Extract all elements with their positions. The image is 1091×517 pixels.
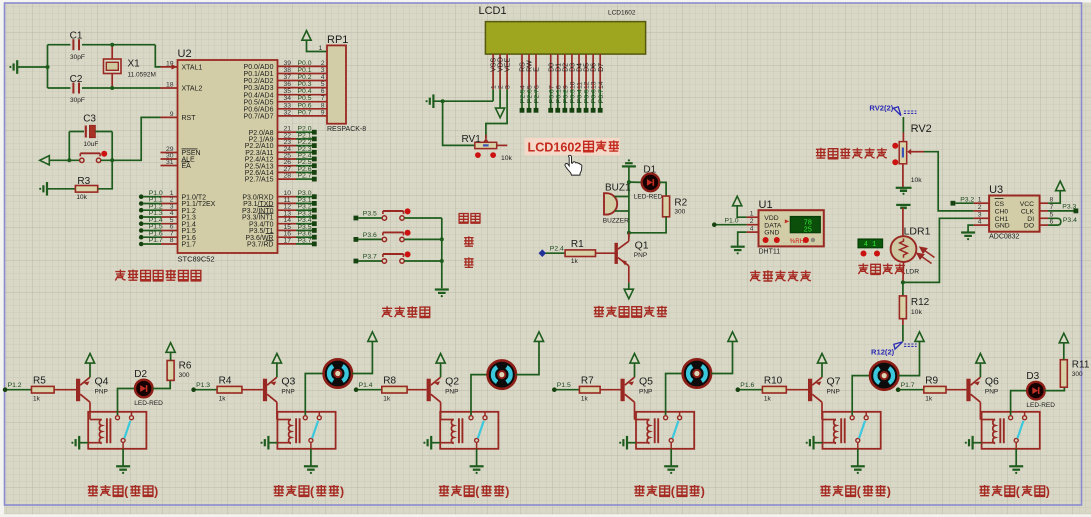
node P1.6 xyxy=(736,387,741,392)
svg-text:7: 7 xyxy=(548,85,555,89)
wire buzzer bottom xyxy=(615,210,629,212)
wire relay to led xyxy=(118,389,136,416)
svg-text:30pF: 30pF xyxy=(70,54,85,61)
wire common xyxy=(310,442,312,448)
wire input P1.7 xyxy=(898,389,924,391)
svg-text:2: 2 xyxy=(750,218,754,225)
wire R2 down xyxy=(629,217,666,233)
svg-text:P2.4: P2.4 xyxy=(550,246,564,253)
node P2.4 xyxy=(539,249,547,257)
pin 32 P0.7 wire xyxy=(278,115,328,117)
node P1.4 xyxy=(354,387,359,392)
svg-text:1k: 1k xyxy=(764,395,772,402)
wire collector xyxy=(276,402,278,419)
relay blade xyxy=(672,421,678,439)
node P1.0 xyxy=(712,222,717,227)
svg-text:R1: R1 xyxy=(571,239,584,250)
node X1 bottom xyxy=(110,86,114,90)
svg-text:10: 10 xyxy=(570,81,577,89)
wire R1 to Q1 xyxy=(596,252,617,254)
buzzer BUZ1 xyxy=(604,193,617,214)
svg-text:EA: EA xyxy=(182,163,192,170)
wire P3.5 to bus xyxy=(404,217,442,219)
svg-text:Q6: Q6 xyxy=(985,376,999,388)
pin 7 CLK U3 xyxy=(1040,210,1049,212)
wire base xyxy=(407,389,427,391)
node alarm2 xyxy=(627,231,631,235)
pin 12 P3.2 wire xyxy=(278,209,297,211)
transistor Q6 xyxy=(966,379,970,402)
button P3.7 xyxy=(354,259,359,264)
wire base xyxy=(242,389,263,391)
wire relay to motor xyxy=(666,374,683,416)
svg-text:R2: R2 xyxy=(674,197,687,208)
resistor R12 xyxy=(899,296,906,319)
label buttons xyxy=(382,306,392,317)
svg-text:Q7: Q7 xyxy=(827,376,841,388)
wire RV2 top xyxy=(902,117,904,133)
svg-text:STC89C52: STC89C52 xyxy=(178,255,215,264)
wire base xyxy=(54,389,76,391)
svg-text:14: 14 xyxy=(598,81,605,89)
pin 3 VEE lcd xyxy=(506,54,508,89)
wire collector xyxy=(821,402,823,419)
svg-text:R12(2): R12(2) xyxy=(871,347,895,356)
svg-text:Q4: Q4 xyxy=(95,376,109,388)
pin 26 P2.5 wire xyxy=(278,165,297,167)
svg-text:36: 36 xyxy=(284,81,292,88)
svg-text:P0.2/AD2: P0.2/AD2 xyxy=(244,78,274,85)
node P1.3 xyxy=(191,387,196,392)
svg-text:BUZ1: BUZ1 xyxy=(605,182,631,193)
wire R3 right xyxy=(98,160,113,189)
svg-text:300: 300 xyxy=(674,208,685,215)
power arrow Q2 xyxy=(436,354,445,364)
svg-text:LCD1: LCD1 xyxy=(479,5,507,17)
svg-text:P0.5: P0.5 xyxy=(584,89,591,103)
svg-text:5: 5 xyxy=(527,85,534,89)
svg-text:R7: R7 xyxy=(581,376,594,387)
svg-text:VSS: VSS xyxy=(491,58,498,72)
svg-text:37: 37 xyxy=(284,74,292,81)
wire common xyxy=(670,442,672,448)
wire motor to power xyxy=(711,341,732,373)
svg-text:7: 7 xyxy=(321,95,325,102)
wire relay to led xyxy=(1011,391,1028,415)
pin 2 P1.1 xyxy=(139,201,144,206)
svg-text:P1.7: P1.7 xyxy=(182,242,197,249)
pin 11 D4 lcd xyxy=(578,54,580,89)
ground contact Q5 xyxy=(670,449,672,467)
battery BAT1 xyxy=(896,187,912,189)
svg-text:1: 1 xyxy=(978,196,982,203)
power arrow U1 xyxy=(733,196,742,206)
svg-text:P0.7/AD7: P0.7/AD7 xyxy=(244,114,274,121)
crystal X1 xyxy=(111,45,113,59)
svg-text:LDR1: LDR1 xyxy=(904,225,931,237)
svg-text:P3.7: P3.7 xyxy=(363,253,377,260)
relay RL-Q6 xyxy=(982,412,1040,449)
svg-text:13: 13 xyxy=(591,81,598,89)
pin 1 VDD U1 xyxy=(747,216,759,218)
svg-text:P1.0: P1.0 xyxy=(725,218,739,225)
resistor R9 xyxy=(924,386,946,393)
transistor Q7 xyxy=(808,379,812,402)
svg-text:P0.3/AD3: P0.3/AD3 xyxy=(244,85,274,92)
power arrow motor M-cool xyxy=(368,332,377,342)
svg-text:C1: C1 xyxy=(70,31,83,42)
svg-text:R12: R12 xyxy=(911,297,930,308)
ground coil Q4 xyxy=(78,436,80,450)
svg-text:6: 6 xyxy=(534,85,541,89)
svg-text:2: 2 xyxy=(321,60,325,67)
wire alarm gnd xyxy=(628,166,630,238)
pin 13 P3.3 wire xyxy=(278,216,297,218)
svg-text:34: 34 xyxy=(284,95,292,102)
pin 3 P1.2 xyxy=(139,208,144,213)
wire P3.2 CS xyxy=(955,202,974,204)
svg-text:R9: R9 xyxy=(925,376,938,387)
svg-text:1k: 1k xyxy=(581,395,589,402)
power arrow U3 xyxy=(1056,181,1065,191)
svg-text:P0.6: P0.6 xyxy=(298,102,312,109)
ground contact Q6 xyxy=(1015,449,1017,467)
svg-text:P0.0: P0.0 xyxy=(298,60,312,67)
wire rail to RV1 xyxy=(443,101,475,145)
power arrow Q4 xyxy=(85,354,94,364)
motor M-cool xyxy=(324,359,352,387)
svg-text:C2: C2 xyxy=(70,74,83,85)
label 继电器(除湿) xyxy=(634,485,644,496)
pin 1 VSS lcd xyxy=(492,54,494,89)
svg-text:4: 4 xyxy=(520,85,527,89)
pin 24 P2.3 wire xyxy=(278,151,297,153)
resistor R10 xyxy=(762,386,786,393)
svg-text:CH0: CH0 xyxy=(995,209,1009,216)
svg-text:4: 4 xyxy=(750,225,754,232)
svg-text:8: 8 xyxy=(321,102,325,109)
svg-text:38: 38 xyxy=(284,67,292,74)
svg-text:11.0592M: 11.0592M xyxy=(128,72,156,79)
power arrow Q3 xyxy=(272,354,281,364)
svg-text:3: 3 xyxy=(505,85,512,89)
svg-text:D4: D4 xyxy=(577,63,584,72)
pin 3 CH1 U3 xyxy=(974,217,990,219)
pin 4 GND U3 xyxy=(974,224,990,226)
svg-text:39: 39 xyxy=(284,60,292,67)
ground lcd xyxy=(432,94,434,108)
svg-text:D6: D6 xyxy=(591,63,598,72)
svg-text:R3: R3 xyxy=(77,176,90,187)
svg-text:P3.5: P3.5 xyxy=(363,210,377,217)
svg-text:35: 35 xyxy=(284,88,292,95)
ground crystal xyxy=(16,60,18,74)
pin 10 D3 lcd xyxy=(571,54,573,89)
relay blade xyxy=(1017,421,1023,439)
module U1 DHT11 xyxy=(759,210,824,246)
svg-text:P2.6: P2.6 xyxy=(527,89,534,103)
wire P2.4 to R1 xyxy=(546,252,566,254)
pin 25 P2.4 wire xyxy=(278,158,297,160)
svg-text:RV1: RV1 xyxy=(462,134,482,145)
display light value xyxy=(858,239,882,248)
svg-text:P3.7: P3.7 xyxy=(298,237,312,244)
motor M-hum xyxy=(488,360,516,388)
wire collector xyxy=(440,402,442,419)
svg-text:RW: RW xyxy=(527,60,534,72)
svg-text:DATA: DATA xyxy=(764,222,782,229)
svg-text:R11: R11 xyxy=(1072,360,1090,371)
svg-text:E: E xyxy=(534,67,541,72)
ground contact Q2 xyxy=(476,449,478,467)
wire input P1.4 xyxy=(356,389,382,391)
pin 38 P0.1 wire xyxy=(278,73,328,75)
power arrow reset xyxy=(40,156,50,165)
svg-text:GND: GND xyxy=(995,223,1010,230)
motor M-dehum xyxy=(683,359,711,387)
svg-text:P0.4: P0.4 xyxy=(298,88,312,95)
svg-text:P0.5/AD5: P0.5/AD5 xyxy=(244,99,274,106)
wire R11 to power xyxy=(1063,343,1065,360)
power arrow Q5 xyxy=(630,354,639,364)
pin 5 RW lcd xyxy=(528,54,530,89)
transistor Q4 xyxy=(76,379,80,402)
svg-text:): ) xyxy=(701,484,705,498)
svg-text:P0.6/AD6: P0.6/AD6 xyxy=(244,106,274,113)
wire motor to power xyxy=(516,341,539,374)
wire base xyxy=(786,389,808,391)
wire common xyxy=(1015,442,1017,448)
wire led to R6 xyxy=(153,380,171,388)
pin 14 D7 lcd xyxy=(599,54,601,89)
node alarm1 xyxy=(627,180,631,184)
label mcu title xyxy=(115,270,125,281)
svg-text:P0.7: P0.7 xyxy=(298,109,312,116)
ground contact Q3 xyxy=(310,449,312,467)
power arrow Q1 xyxy=(624,289,633,299)
svg-text:1k: 1k xyxy=(219,395,227,402)
resistor R6 xyxy=(167,361,174,381)
svg-text:BUZZER: BUZZER xyxy=(603,218,629,225)
pin 36 P0.3 wire xyxy=(278,87,328,89)
wire input P1.2 xyxy=(5,389,31,391)
svg-text:P0.3: P0.3 xyxy=(570,89,577,103)
ground contact Q7 xyxy=(857,449,859,467)
wire common xyxy=(476,442,478,448)
ground U1 xyxy=(738,232,747,246)
node reset left xyxy=(67,158,71,162)
svg-text:1: 1 xyxy=(319,45,323,52)
svg-text:D3: D3 xyxy=(1026,371,1039,382)
wire to D1 xyxy=(629,181,642,183)
relay blade xyxy=(478,421,484,439)
button reset xyxy=(80,158,84,162)
node bus2 xyxy=(440,259,444,263)
pin 9 D2 lcd xyxy=(564,54,566,89)
wire relay to motor xyxy=(305,374,323,416)
svg-text:ADC0832: ADC0832 xyxy=(989,234,1019,241)
wire C3 left xyxy=(68,132,70,161)
resistor R1 xyxy=(565,250,595,257)
svg-text:D2: D2 xyxy=(562,63,569,72)
ground coil Q3 xyxy=(267,436,269,450)
transistor Q3 xyxy=(263,379,267,402)
wire XTAL1 xyxy=(155,45,160,67)
pin 7 D0 lcd xyxy=(550,54,552,89)
wire VEE to RV1 xyxy=(486,89,507,138)
svg-text:3: 3 xyxy=(321,67,325,74)
pin 2 CH0 U3 xyxy=(974,210,990,212)
svg-text:4 1: 4 1 xyxy=(864,241,877,249)
svg-text:P0.1/AD1: P0.1/AD1 xyxy=(244,71,274,78)
pin 30 ALE xyxy=(161,158,178,160)
power arrow R6 xyxy=(166,343,175,353)
capacitor C3 xyxy=(69,131,84,133)
svg-text:P3.3: P3.3 xyxy=(1062,204,1076,211)
svg-text:LCD1602: LCD1602 xyxy=(608,9,636,16)
node P1.2 xyxy=(3,387,8,392)
label alarm xyxy=(594,306,604,317)
svg-text:P1.3: P1.3 xyxy=(196,382,210,389)
label plus xyxy=(464,236,474,247)
svg-text:1k: 1k xyxy=(925,395,933,402)
ground alarm xyxy=(628,159,630,161)
svg-text:10k: 10k xyxy=(76,194,87,201)
pin 12 D5 lcd xyxy=(585,54,587,89)
svg-text:VDD: VDD xyxy=(498,57,505,72)
svg-text:5: 5 xyxy=(321,81,325,88)
label dht xyxy=(750,270,760,281)
svg-text:11: 11 xyxy=(577,82,584,89)
svg-text:9: 9 xyxy=(170,111,174,118)
svg-text:1: 1 xyxy=(750,210,754,217)
svg-text:PNP: PNP xyxy=(281,388,294,395)
svg-text:1: 1 xyxy=(491,85,498,89)
power arrow VDD xyxy=(499,89,501,108)
svg-text:P0.4/AD4: P0.4/AD4 xyxy=(244,92,274,99)
pin 19 XTAL1 xyxy=(161,66,178,68)
wire RV1 right xyxy=(497,144,508,146)
svg-text:LED-RED: LED-RED xyxy=(1026,402,1055,409)
pin 11 P3.1 wire xyxy=(278,202,297,204)
svg-text:VDD: VDD xyxy=(764,215,778,222)
svg-text:10k: 10k xyxy=(911,309,923,316)
svg-text:DO: DO xyxy=(1024,223,1034,230)
svg-text:2: 2 xyxy=(498,85,505,89)
svg-text:R4: R4 xyxy=(219,376,232,387)
capacitor C1 xyxy=(48,44,71,46)
svg-text:D1: D1 xyxy=(555,63,562,72)
wire LDR bottom xyxy=(902,262,905,282)
pin 8 D1 lcd xyxy=(557,54,559,89)
relay blade xyxy=(859,421,865,439)
wire input P1.5 xyxy=(554,389,579,391)
svg-text:P2.7/A15: P2.7/A15 xyxy=(245,177,274,184)
led D1 xyxy=(642,174,660,192)
svg-text:): ) xyxy=(154,484,158,498)
svg-text:6: 6 xyxy=(321,88,325,95)
svg-text:D0: D0 xyxy=(548,63,555,72)
button P3.5 xyxy=(354,216,359,221)
power arrow Q7 xyxy=(817,354,826,364)
potentiometer RV2 xyxy=(899,142,907,164)
wire BAT to LDR xyxy=(902,208,904,237)
wire common xyxy=(857,442,859,448)
svg-text:P0.0: P0.0 xyxy=(548,89,555,103)
svg-text:DHT11: DHT11 xyxy=(759,249,781,256)
wire R6 to power xyxy=(170,352,172,360)
svg-text:): ) xyxy=(887,484,891,498)
wire Q1 emitter xyxy=(628,266,630,283)
svg-text:X1: X1 xyxy=(128,59,141,70)
relay RL-Q7 xyxy=(823,412,881,449)
svg-text:P3.4: P3.4 xyxy=(1063,217,1077,224)
svg-text:31: 31 xyxy=(166,159,174,166)
power arrow R11 xyxy=(1059,333,1068,343)
svg-text:RV2: RV2 xyxy=(911,123,932,135)
svg-text:PNP: PNP xyxy=(634,252,647,259)
svg-text:Q5: Q5 xyxy=(639,376,653,388)
svg-text:33: 33 xyxy=(284,102,292,109)
pin 21 P2.0 wire xyxy=(278,131,297,133)
pin 6 P1.5 xyxy=(139,228,144,233)
pin 31 EA xyxy=(161,165,178,167)
node P1.5 xyxy=(552,387,557,392)
svg-text:U1: U1 xyxy=(759,199,773,211)
label minus xyxy=(464,257,474,268)
wire collector xyxy=(979,402,981,419)
label set xyxy=(459,214,469,224)
resistor R8 xyxy=(382,386,407,393)
pin 6 E lcd xyxy=(535,54,537,89)
svg-text:18: 18 xyxy=(166,82,174,89)
wire motor to power xyxy=(352,341,372,373)
svg-text:30pF: 30pF xyxy=(70,97,85,104)
svg-text:P0.3: P0.3 xyxy=(298,81,312,88)
pin 37 P0.2 wire xyxy=(278,80,328,82)
wire relay to motor xyxy=(471,375,488,415)
label 继电器(制冷) xyxy=(274,485,284,496)
svg-text:PNP: PNP xyxy=(985,388,998,395)
pin 5 P1.4 xyxy=(139,221,144,226)
pin 22 P2.1 wire xyxy=(278,138,297,140)
wire R12 down xyxy=(902,319,904,325)
svg-text:P1.6: P1.6 xyxy=(740,382,754,389)
svg-text:R10: R10 xyxy=(764,376,783,387)
pin 9 RST xyxy=(161,116,178,118)
node caps xyxy=(46,65,50,69)
node P3.2 xyxy=(951,201,956,206)
pin 10 P3.0 wire xyxy=(278,196,297,198)
svg-text:P0.7: P0.7 xyxy=(598,89,605,103)
svg-text:10uF: 10uF xyxy=(84,141,99,148)
svg-text:P0.2: P0.2 xyxy=(298,74,312,81)
pin 8 P1.7 xyxy=(139,242,144,247)
svg-text:P1.7: P1.7 xyxy=(149,237,163,244)
relay RL-Q2 xyxy=(440,412,498,449)
svg-text:LED-RED: LED-RED xyxy=(134,400,163,407)
svg-text:32: 32 xyxy=(284,109,292,116)
svg-text:P3.6: P3.6 xyxy=(363,232,377,239)
mcu U2 STC89C52 xyxy=(178,60,278,253)
svg-text:C3: C3 xyxy=(83,114,96,125)
power arrow motor M-dehum xyxy=(728,332,737,342)
svg-text:U3: U3 xyxy=(989,184,1003,196)
wire button bus xyxy=(441,218,443,288)
power arrow Q6 xyxy=(976,354,985,364)
pin 14 P3.4 wire xyxy=(278,223,297,225)
pin 33 P0.6 wire xyxy=(278,108,328,110)
